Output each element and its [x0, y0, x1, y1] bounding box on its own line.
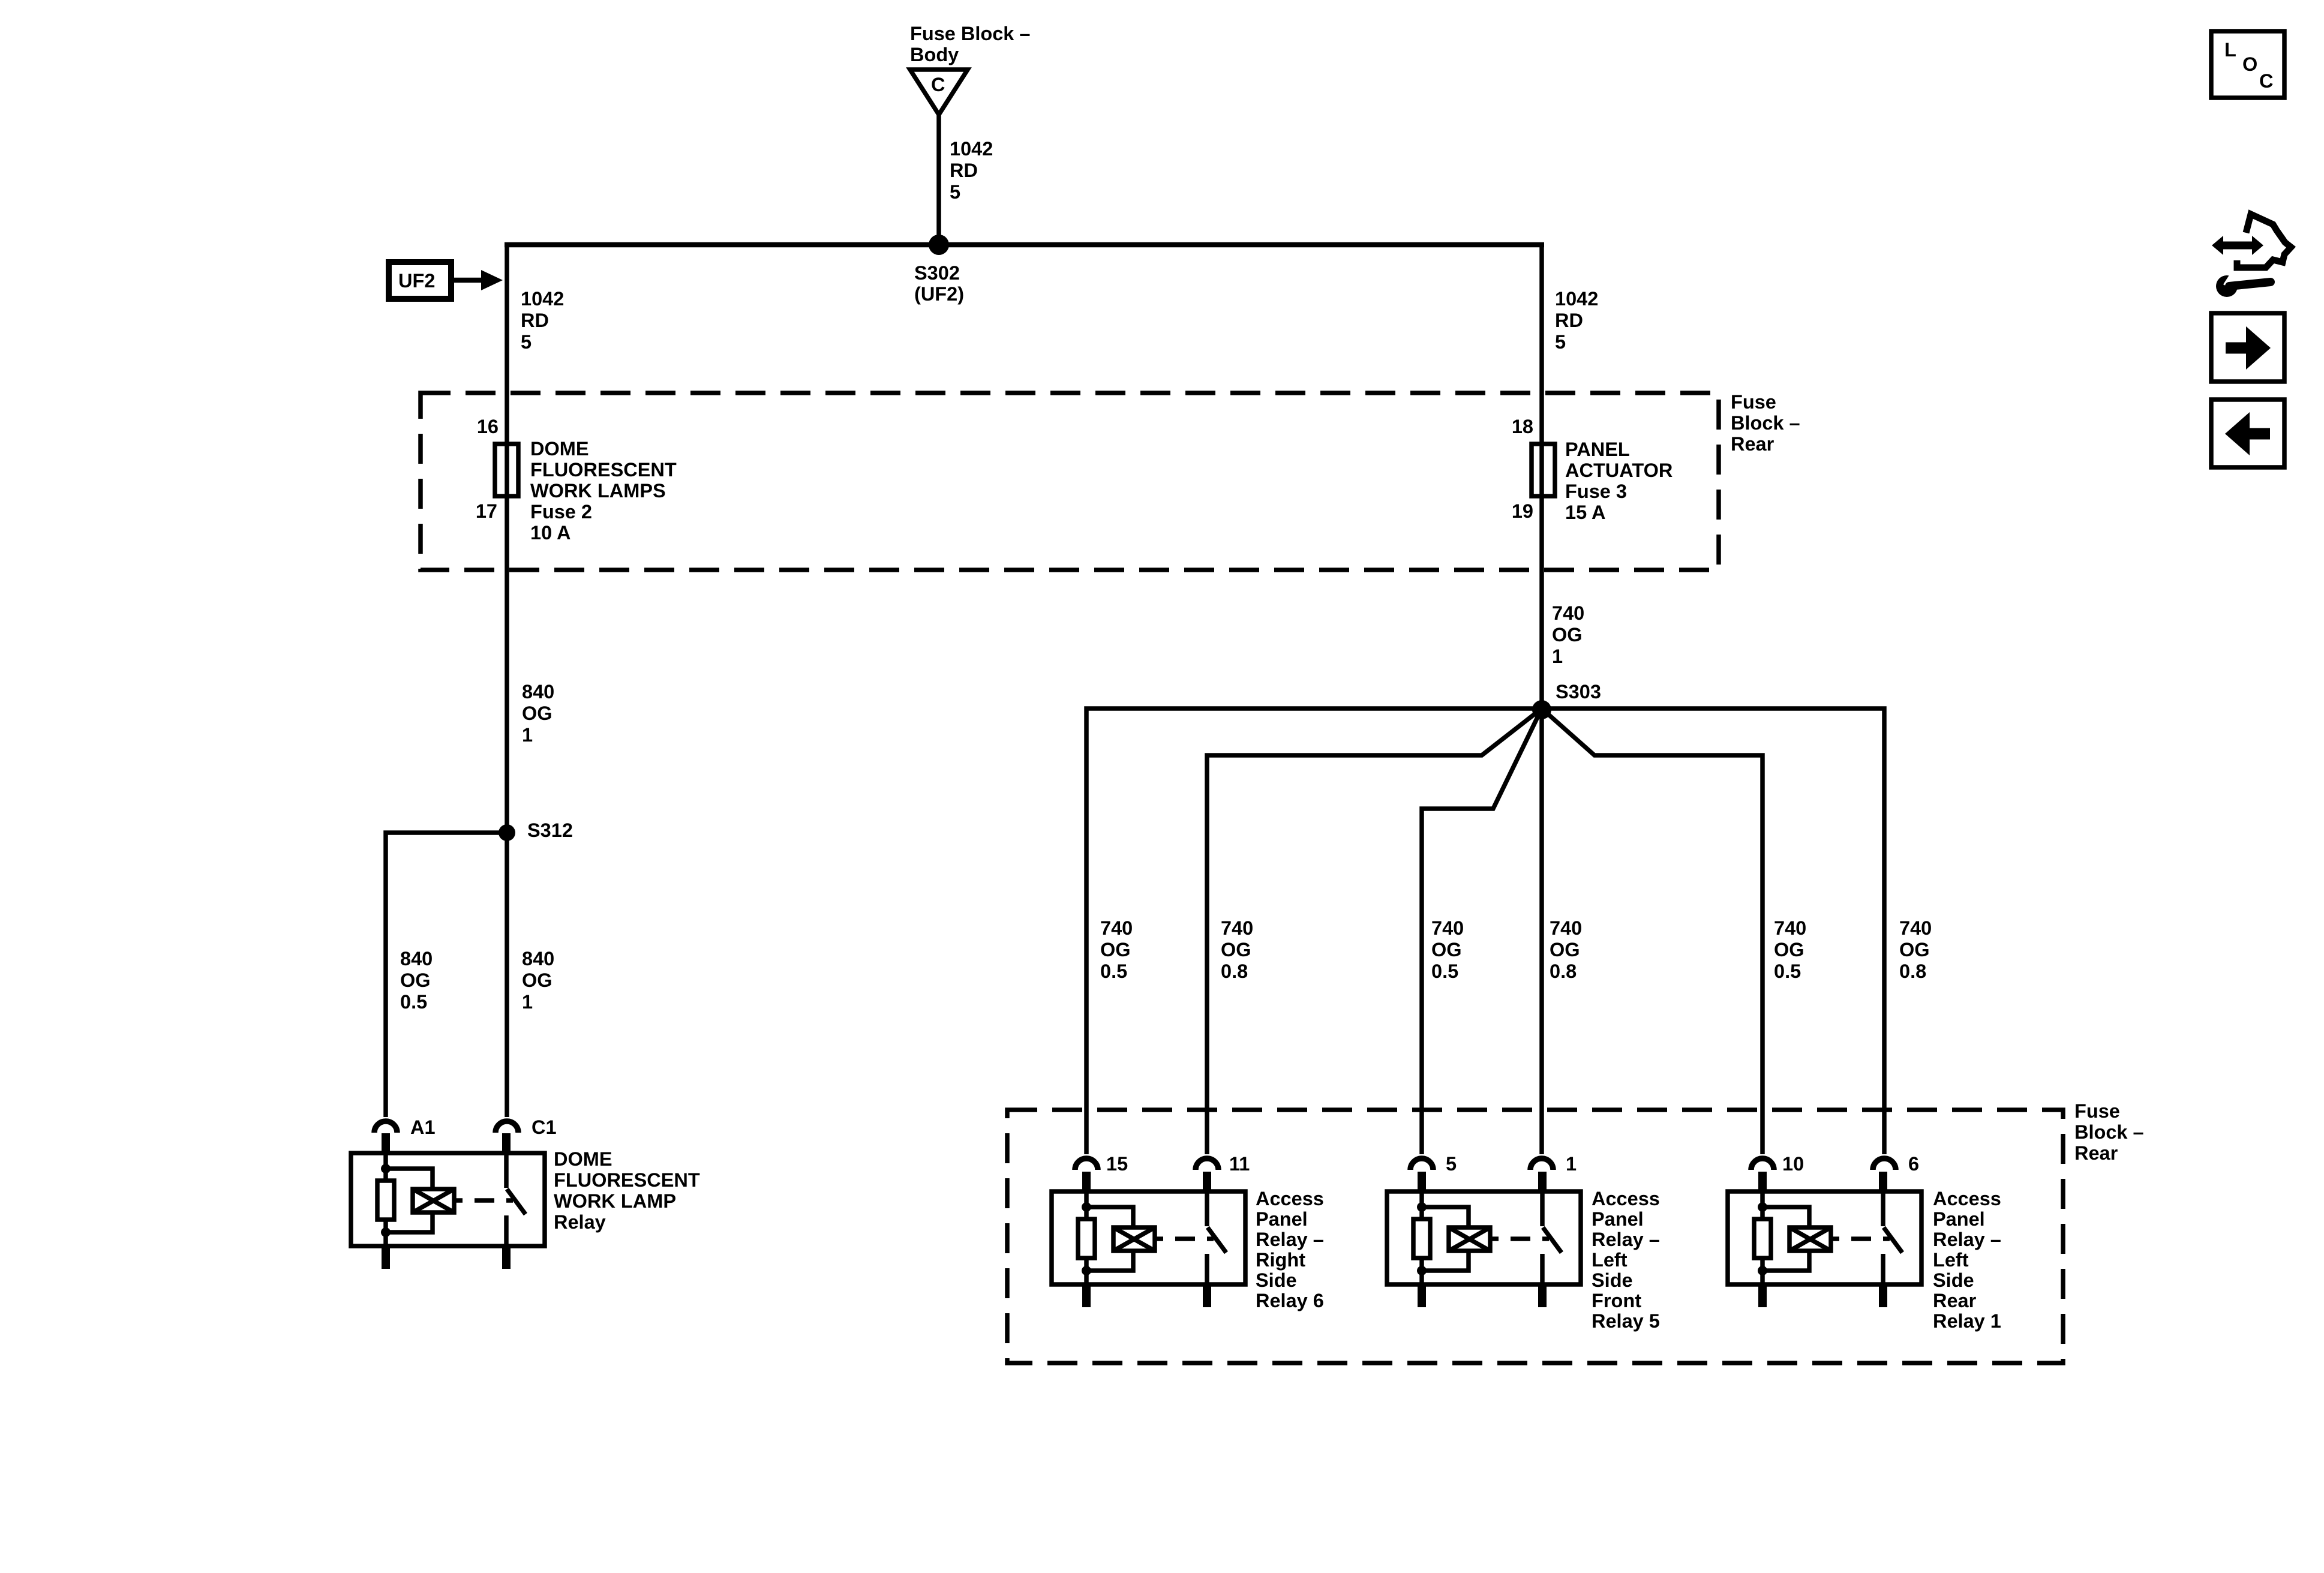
svg-text:0.8: 0.8	[1550, 960, 1577, 982]
UF2 reference box	[389, 262, 451, 299]
svg-text:Rear: Rear	[1731, 433, 1774, 455]
svg-text:Fuse 3: Fuse 3	[1565, 481, 1627, 502]
svg-text:OG: OG	[1552, 624, 1583, 646]
svg-text:0.5: 0.5	[1774, 960, 1801, 982]
node S302	[929, 235, 949, 255]
svg-text:OG: OG	[1550, 939, 1580, 960]
svg-text:C1: C1	[532, 1116, 557, 1138]
svg-text:18: 18	[1512, 416, 1533, 437]
svg-text:5: 5	[1555, 331, 1566, 353]
svg-text:Panel: Panel	[1933, 1208, 1985, 1230]
svg-text:15 A: 15 A	[1565, 502, 1605, 523]
wire: S303 branch 1 (pin 15)	[1086, 709, 1542, 1154]
svg-text:Side: Side	[1256, 1269, 1297, 1291]
svg-text:RD: RD	[950, 160, 978, 181]
svg-text:Access: Access	[1592, 1188, 1660, 1209]
wire: S303 branch 3 (pin 5)	[1422, 709, 1542, 1154]
svg-text:840: 840	[400, 948, 433, 969]
svg-text:Block –: Block –	[2074, 1121, 2144, 1143]
svg-text:15: 15	[1106, 1153, 1128, 1175]
connector C triangle (Fuse Block - Body)	[910, 70, 968, 115]
svg-text:0.5: 0.5	[1431, 960, 1458, 982]
pin 6 connector	[1873, 1158, 1896, 1170]
svg-text:0.5: 0.5	[400, 991, 427, 1013]
svg-text:740: 740	[1899, 917, 1932, 939]
svg-text:16: 16	[477, 416, 499, 437]
wire: S303 branch 5 (pin 10)	[1542, 709, 1762, 1154]
svg-text:Left: Left	[1933, 1249, 1969, 1271]
svg-text:RD: RD	[521, 310, 549, 331]
svg-text:Rear: Rear	[1933, 1290, 1977, 1311]
svg-text:6: 6	[1908, 1153, 1919, 1175]
svg-text:(UF2): (UF2)	[914, 283, 964, 305]
svg-text:OG: OG	[1431, 939, 1462, 960]
svg-text:Block –: Block –	[1731, 412, 1800, 434]
wire: S312 branch to A1	[386, 833, 507, 1117]
svg-text:1: 1	[1552, 646, 1563, 667]
svg-text:17: 17	[476, 500, 497, 522]
pin 5 connector	[1410, 1158, 1433, 1170]
svg-text:840: 840	[522, 948, 554, 969]
svg-text:DOME: DOME	[554, 1148, 612, 1170]
svg-text:RD: RD	[1555, 310, 1583, 331]
relay access panel relay left side rear (Relay 1)	[1728, 1172, 1921, 1307]
wire: S303 branch 6 (pin 6)	[1542, 709, 1884, 1154]
fuse F3 PANEL ACTUATOR	[1532, 444, 1555, 496]
svg-text:Access: Access	[1933, 1188, 2001, 1209]
svg-text:OG: OG	[522, 969, 553, 991]
pin 11 connector	[1196, 1158, 1218, 1170]
svg-text:WORK LAMP: WORK LAMP	[554, 1190, 676, 1212]
svg-text:1042: 1042	[1555, 288, 1598, 310]
svg-text:UF2: UF2	[398, 270, 435, 292]
svg-text:Relay –: Relay –	[1933, 1229, 2001, 1250]
svg-text:Fuse Block –: Fuse Block –	[910, 23, 1031, 44]
node S303	[1532, 700, 1551, 719]
svg-text:Fuse 2: Fuse 2	[530, 501, 592, 523]
svg-text:10: 10	[1782, 1153, 1804, 1175]
svg-text:1: 1	[522, 724, 533, 746]
svg-text:PANEL: PANEL	[1565, 439, 1630, 460]
svg-text:C: C	[931, 74, 945, 95]
svg-text:OG: OG	[1100, 939, 1131, 960]
svg-text:740: 740	[1552, 602, 1584, 624]
svg-text:Rear: Rear	[2074, 1142, 2118, 1164]
svg-text:Access: Access	[1256, 1188, 1324, 1209]
node S312	[499, 824, 515, 841]
svg-text:Left: Left	[1592, 1249, 1628, 1271]
wire: connector C to S302	[936, 112, 941, 245]
svg-text:Relay –: Relay –	[1592, 1229, 1660, 1250]
relay K dome fluorescent work lamp relay	[351, 1133, 545, 1269]
svg-text:OG: OG	[522, 703, 553, 724]
fuse block rear dashed box (bottom)	[1007, 1110, 2063, 1363]
svg-text:FLUORESCENT: FLUORESCENT	[530, 459, 677, 481]
svg-text:5: 5	[521, 331, 532, 353]
svg-text:OG: OG	[1774, 939, 1804, 960]
svg-text:1: 1	[1566, 1153, 1577, 1175]
icon arrow right box	[2211, 313, 2284, 382]
svg-text:Body: Body	[910, 44, 959, 65]
pin 10 connector	[1751, 1158, 1774, 1170]
icon arrow left box	[2211, 400, 2284, 467]
svg-text:740: 740	[1774, 917, 1806, 939]
svg-text:OG: OG	[1221, 939, 1251, 960]
svg-text:1042: 1042	[521, 288, 564, 310]
svg-text:Panel: Panel	[1256, 1208, 1308, 1230]
svg-text:L: L	[2224, 39, 2236, 61]
relay access panel relay left side front (Relay 5)	[1387, 1172, 1581, 1307]
svg-text:0.5: 0.5	[1100, 960, 1127, 982]
wire: right branch down (S302 to pin 1)	[1539, 245, 1544, 1154]
svg-text:Relay –: Relay –	[1256, 1229, 1324, 1250]
svg-text:Right: Right	[1256, 1249, 1305, 1271]
svg-text:Relay: Relay	[554, 1211, 606, 1233]
svg-text:S312: S312	[527, 819, 573, 841]
svg-text:Side: Side	[1933, 1269, 1974, 1291]
svg-text:Side: Side	[1592, 1269, 1633, 1291]
svg-text:0.8: 0.8	[1221, 960, 1248, 982]
wire: UF2 arrow	[451, 278, 481, 283]
wire: S303 branch 2 (pin 11)	[1207, 709, 1542, 1154]
svg-text:C: C	[2259, 70, 2273, 92]
svg-text:Relay 1: Relay 1	[1933, 1310, 2001, 1332]
connector C1	[496, 1121, 518, 1133]
pin 15 connector	[1075, 1158, 1098, 1170]
svg-text:Panel: Panel	[1592, 1208, 1644, 1230]
svg-text:5: 5	[1446, 1153, 1457, 1175]
svg-text:740: 740	[1100, 917, 1133, 939]
svg-text:19: 19	[1512, 500, 1533, 522]
icon repair (double arrow, panel outline, wrench)	[2212, 214, 2291, 297]
connector A1	[374, 1121, 397, 1133]
svg-text:FLUORESCENT: FLUORESCENT	[554, 1169, 700, 1191]
pin 1 connector	[1530, 1158, 1553, 1170]
svg-text:S302: S302	[914, 262, 960, 284]
icon LOC box	[2211, 31, 2284, 98]
svg-text:740: 740	[1221, 917, 1253, 939]
svg-text:Relay 5: Relay 5	[1592, 1310, 1660, 1332]
svg-text:Relay 6: Relay 6	[1256, 1290, 1324, 1311]
svg-text:DOME: DOME	[530, 438, 589, 460]
svg-text:Fuse: Fuse	[1731, 391, 1776, 413]
svg-text:Front: Front	[1592, 1290, 1641, 1311]
wire: main horizontal bus	[505, 242, 1544, 248]
svg-text:1042: 1042	[950, 138, 993, 160]
svg-text:Fuse: Fuse	[2074, 1100, 2120, 1122]
svg-text:5: 5	[950, 181, 960, 203]
relay access panel relay right side (Relay 6)	[1052, 1172, 1245, 1307]
fuse F2 DOME FLUORESCENT WORK LAMPS	[495, 444, 518, 496]
svg-text:840: 840	[522, 681, 554, 703]
svg-text:WORK LAMPS: WORK LAMPS	[530, 480, 666, 502]
svg-text:O: O	[2242, 53, 2257, 75]
svg-text:0.8: 0.8	[1899, 960, 1926, 982]
svg-text:OG: OG	[1899, 939, 1930, 960]
svg-text:10 A: 10 A	[530, 522, 571, 544]
svg-text:1: 1	[522, 991, 533, 1013]
fuse block rear dashed box (top)	[421, 393, 1719, 570]
wire: left branch down (S302 to relay C1)	[505, 245, 509, 1117]
svg-text:11: 11	[1229, 1153, 1250, 1175]
svg-text:740: 740	[1550, 917, 1582, 939]
svg-text:S303: S303	[1556, 681, 1601, 703]
svg-text:A1: A1	[410, 1116, 436, 1138]
svg-text:740: 740	[1431, 917, 1464, 939]
svg-text:OG: OG	[400, 969, 431, 991]
svg-text:ACTUATOR: ACTUATOR	[1565, 460, 1673, 481]
